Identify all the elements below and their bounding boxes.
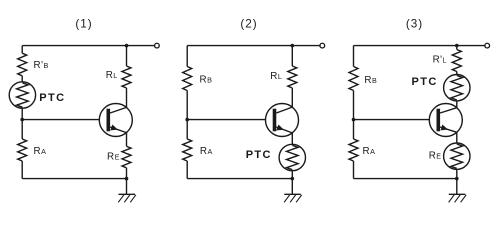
svg-text:PTC: PTC [246,149,272,161]
svg-text:RA: RA [363,146,376,157]
svg-text:RE: RE [107,151,120,162]
svg-text:RA: RA [200,146,213,157]
svg-text:RA: RA [34,146,47,157]
svg-text:RB: RB [200,75,213,86]
svg-text:PTC: PTC [412,76,438,88]
svg-text:RE: RE [429,150,442,161]
svg-text:PTC: PTC [39,92,65,104]
svg-text:RL: RL [106,70,118,81]
svg-text:R'B: R'B [34,60,49,71]
svg-text:RL: RL [270,71,282,82]
svg-text:(1): (1) [75,17,92,30]
svg-text:RB: RB [364,75,377,86]
svg-text:(2): (2) [240,17,257,30]
svg-text:(3): (3) [406,17,423,30]
svg-text:R'L: R'L [433,55,447,66]
